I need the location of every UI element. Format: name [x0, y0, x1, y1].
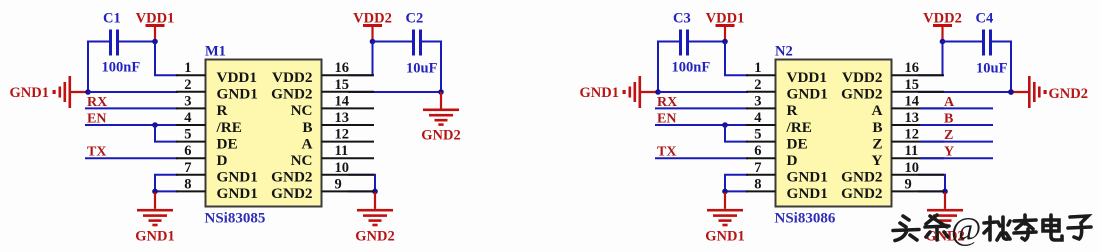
pin 11 stub [892, 157, 945, 159]
IC N2 NSi83086 [776, 60, 892, 207]
svg-text:VDD2: VDD2 [353, 11, 392, 27]
ground GND2 (right of C4) [1011, 76, 1088, 108]
wire [918, 175, 945, 192]
wire [992, 42, 1011, 93]
ground GND1 bottom [135, 192, 174, 244]
svg-text:GND2: GND2 [421, 128, 460, 144]
pin 4 stub [176, 124, 206, 126]
pin 14 stub [892, 107, 945, 109]
wire A [920, 107, 993, 109]
svg-text:NSi83086: NSi83086 [775, 211, 836, 227]
svg-text:GND2: GND2 [1049, 86, 1088, 102]
svg-text:NC: NC [291, 102, 313, 119]
svg-text:14: 14 [905, 93, 920, 109]
svg-text:GND1: GND1 [787, 86, 828, 103]
node pin8 junction [722, 189, 728, 195]
svg-text:11: 11 [335, 143, 349, 159]
svg-text:A: A [872, 102, 883, 119]
IC M1 NSi83085 [206, 60, 322, 207]
wire [658, 91, 748, 93]
pin 6 stub [746, 157, 776, 159]
svg-text:Y: Y [872, 152, 883, 169]
node C4 GND2 junction [1008, 89, 1014, 95]
svg-text:10uF: 10uF [976, 61, 1008, 77]
node VDD1 junction [722, 39, 728, 45]
svg-text:@: @ [951, 212, 981, 248]
svg-text:D: D [217, 152, 228, 169]
capacitor C2 10uF [412, 30, 422, 56]
svg-text:12: 12 [905, 127, 920, 143]
svg-text:R: R [217, 102, 229, 119]
svg-text:C1: C1 [103, 11, 121, 27]
svg-text:100nF: 100nF [102, 60, 141, 76]
wire TX [655, 157, 748, 159]
svg-text:GND2: GND2 [355, 229, 394, 245]
wire [348, 175, 375, 192]
node GND2 junction [1008, 89, 1014, 95]
pin 10 stub [892, 174, 945, 176]
svg-text:A: A [944, 95, 955, 110]
svg-text:A: A [302, 135, 313, 152]
ground GND1 [10, 76, 88, 108]
svg-text:GND1: GND1 [217, 86, 258, 103]
pin 15 stub [322, 91, 375, 93]
svg-text:VDD1: VDD1 [136, 11, 175, 27]
pin 1 stub [176, 74, 206, 76]
svg-text:15: 15 [335, 77, 350, 93]
wire [87, 41, 109, 43]
svg-text:VDD2: VDD2 [272, 69, 313, 86]
pin 2 stub [176, 91, 206, 93]
svg-text:GND2: GND2 [841, 86, 882, 103]
svg-text:Z: Z [944, 128, 953, 143]
svg-text:NC: NC [291, 152, 313, 169]
wire RX [655, 107, 748, 109]
right circuit N2 NSi83086 [580, 11, 1014, 245]
svg-text:GND1: GND1 [217, 169, 258, 186]
wire B [920, 124, 993, 126]
ground GND1 [580, 76, 658, 108]
svg-text:11: 11 [905, 143, 919, 159]
ground GND2 bottom [355, 192, 394, 244]
svg-text:GND1: GND1 [10, 85, 49, 101]
wire [155, 125, 178, 142]
pin 11 stub [322, 157, 375, 159]
svg-text:DE: DE [217, 135, 238, 152]
svg-text:C3: C3 [673, 11, 691, 27]
svg-text:GND2: GND2 [271, 185, 312, 202]
node GND1 junction [655, 89, 661, 95]
svg-text:GND1: GND1 [787, 169, 828, 186]
wire [88, 91, 178, 93]
svg-text:VDD1: VDD1 [787, 69, 828, 86]
svg-text:8: 8 [754, 176, 761, 192]
svg-text:3: 3 [184, 93, 191, 109]
svg-text:VDD1: VDD1 [706, 11, 745, 27]
svg-text:VDD2: VDD2 [842, 69, 883, 86]
capacitor C1 100nF [109, 30, 119, 56]
pin 8 stub [746, 190, 776, 192]
node GND2 junction [438, 89, 444, 95]
svg-text:6: 6 [184, 143, 191, 159]
svg-text:2: 2 [754, 77, 761, 93]
svg-text:5: 5 [184, 127, 191, 143]
pin 16 stub [322, 74, 375, 76]
ground GND2 bottom [925, 192, 964, 244]
svg-text:B: B [944, 112, 953, 127]
svg-text:R: R [787, 102, 799, 119]
svg-text:GND1: GND1 [787, 185, 828, 202]
wire [657, 41, 679, 43]
capacitor C4 10uF [982, 30, 992, 56]
pin 9 stub [322, 190, 375, 192]
svg-text:10uF: 10uF [406, 61, 438, 77]
svg-text:N2: N2 [775, 43, 793, 59]
wire EN [85, 124, 178, 126]
pin 13 stub [322, 124, 375, 126]
power VDD2 [923, 11, 962, 42]
svg-text:GND2: GND2 [271, 169, 312, 186]
wire [119, 41, 155, 43]
svg-text:100nF: 100nF [672, 60, 711, 76]
wire Y [920, 157, 993, 159]
svg-text:B: B [872, 119, 882, 136]
wire [725, 125, 748, 142]
svg-text:8: 8 [184, 176, 191, 192]
svg-text:16: 16 [905, 60, 920, 76]
pin 4 stub [746, 124, 776, 126]
wire [657, 42, 659, 93]
left circuit M1 NSi83085 [10, 11, 461, 245]
svg-text:16: 16 [335, 60, 350, 76]
wire [918, 42, 982, 76]
node EN junction [722, 122, 728, 128]
svg-text:GND2: GND2 [841, 169, 882, 186]
svg-text:NSi83085: NSi83085 [205, 211, 266, 227]
ground GND2 (below C2) [421, 92, 460, 144]
svg-text:VDD2: VDD2 [923, 11, 962, 27]
pin 12 stub [322, 141, 375, 143]
wire [348, 91, 441, 93]
svg-text:3: 3 [754, 93, 761, 109]
svg-text:4: 4 [754, 110, 761, 126]
wire [918, 91, 1011, 93]
watermark 头条@桃李电子 [893, 215, 1091, 241]
node pin9 junction [942, 189, 948, 195]
svg-text:5: 5 [754, 127, 761, 143]
svg-text:9: 9 [335, 176, 342, 192]
svg-text:13: 13 [905, 110, 920, 126]
node VDD2 junction [370, 39, 376, 45]
svg-text:GND1: GND1 [217, 185, 258, 202]
node EN junction [152, 122, 158, 128]
svg-text:D: D [787, 152, 798, 169]
svg-text:13: 13 [335, 110, 350, 126]
svg-text:2: 2 [184, 77, 191, 93]
svg-text:GND2: GND2 [271, 86, 312, 103]
pin 1 stub [746, 74, 776, 76]
svg-text:1: 1 [754, 60, 761, 76]
svg-text:7: 7 [754, 160, 761, 176]
wire [689, 41, 725, 43]
svg-text:15: 15 [905, 77, 920, 93]
pin 2 stub [746, 91, 776, 93]
pin 7 stub [176, 174, 206, 176]
wire RX [85, 107, 178, 109]
node pin8 junction [152, 189, 158, 195]
wire EN [655, 124, 748, 126]
svg-text:M1: M1 [205, 43, 226, 59]
svg-text:DE: DE [787, 135, 808, 152]
svg-text:10: 10 [905, 160, 920, 176]
wire [348, 42, 412, 76]
wire [422, 42, 441, 93]
wire [725, 175, 748, 192]
node pin9 junction [372, 189, 378, 195]
pin 13 stub [892, 124, 945, 126]
svg-text:GND1: GND1 [135, 229, 174, 245]
pin 5 stub [176, 141, 206, 143]
pin 9 stub [892, 190, 945, 192]
pin 10 stub [322, 174, 375, 176]
svg-text:10: 10 [335, 160, 350, 176]
pin 6 stub [176, 157, 206, 159]
pin 3 stub [746, 107, 776, 109]
ground GND1 bottom [705, 192, 744, 244]
svg-text:VDD1: VDD1 [217, 69, 258, 86]
power VDD2 [353, 11, 392, 42]
pin 3 stub [176, 107, 206, 109]
svg-text:7: 7 [184, 160, 191, 176]
pin 15 stub [892, 91, 945, 93]
wire [725, 42, 748, 76]
svg-text:Y: Y [944, 145, 954, 160]
wire Z [920, 141, 993, 143]
pin 16 stub [892, 74, 945, 76]
power VDD1 [136, 11, 175, 42]
svg-text:Z: Z [872, 135, 882, 152]
svg-text:/RE: /RE [786, 119, 812, 136]
wire [87, 42, 89, 93]
wire [155, 42, 178, 76]
svg-text:/RE: /RE [216, 119, 242, 136]
pin 8 stub [176, 190, 206, 192]
power VDD1 [706, 11, 745, 42]
svg-text:14: 14 [335, 93, 350, 109]
capacitor C3 100nF [679, 30, 689, 56]
svg-text:4: 4 [184, 110, 191, 126]
svg-text:GND1: GND1 [580, 85, 619, 101]
node VDD2 junction [940, 39, 946, 45]
svg-text:GND1: GND1 [705, 229, 744, 245]
svg-text:GND2: GND2 [841, 185, 882, 202]
svg-text:1: 1 [184, 60, 191, 76]
wire TX [85, 157, 178, 159]
svg-text:C4: C4 [976, 11, 994, 27]
pin 14 stub [322, 107, 375, 109]
node VDD1 junction [152, 39, 158, 45]
pin 7 stub [746, 174, 776, 176]
node GND1 junction [85, 89, 91, 95]
pin 12 stub [892, 141, 945, 143]
svg-text:C2: C2 [406, 11, 424, 27]
wire [155, 175, 178, 192]
pin 5 stub [746, 141, 776, 143]
svg-text:9: 9 [905, 176, 912, 192]
svg-text:6: 6 [754, 143, 761, 159]
svg-text:B: B [302, 119, 312, 136]
svg-text:12: 12 [335, 127, 350, 143]
